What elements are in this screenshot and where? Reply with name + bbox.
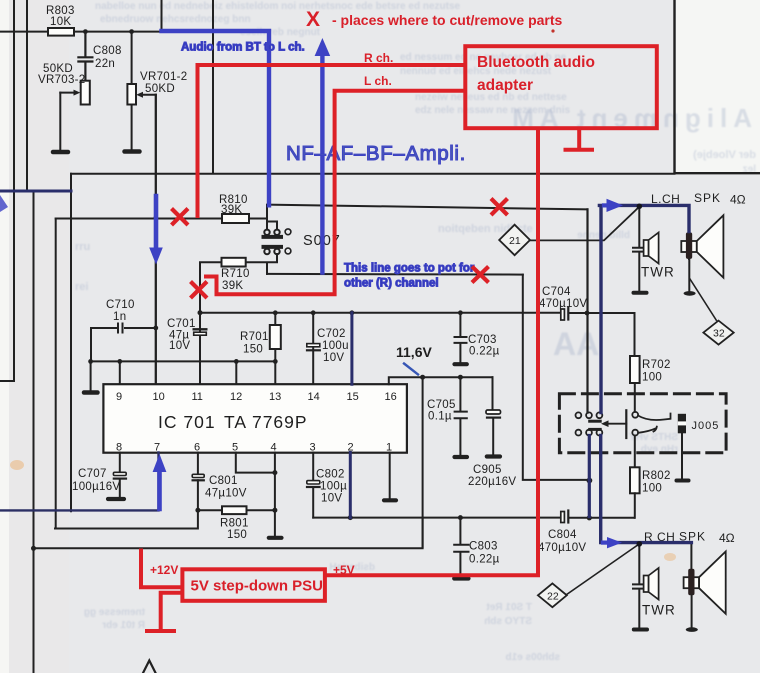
svg-text:bllid nenne: bllid nenne [577, 230, 630, 241]
svg-text:21: 21 [509, 235, 521, 247]
svg-text:sbh00s e1b: sbh00s e1b [506, 652, 560, 663]
svg-text:VR701-2: VR701-2 [140, 71, 188, 83]
potentiometer VR703-2 [38, 63, 90, 105]
diamond node 21 [499, 225, 530, 256]
wire red BT power down [326, 129, 539, 576]
svg-text:50KD: 50KD [145, 83, 175, 95]
svg-text:R710: R710 [221, 268, 250, 280]
capacitor C703 [455, 313, 500, 362]
capacitor C801 [55, 453, 247, 529]
wire signal rail above IC [200, 310, 635, 315]
wire ground bus lower [31, 518, 423, 551]
svg-text:220µ16V: 220µ16V [468, 476, 516, 488]
svg-text:100: 100 [642, 483, 662, 495]
label blue 11.6V [396, 344, 432, 375]
wire navy L channel to speaker [599, 205, 689, 412]
svg-text:39K: 39K [221, 204, 242, 216]
ground pin 4 [269, 536, 282, 540]
wire blue arrow down to pin 10 [149, 196, 163, 265]
wire navy pin 2 path [349, 453, 352, 518]
svg-text:R801: R801 [220, 518, 249, 530]
wire section border top [71, 173, 675, 175]
svg-text:C701: C701 [167, 318, 196, 330]
svg-text:9: 9 [116, 391, 122, 403]
svg-text:C804: C804 [548, 529, 577, 541]
ground red PSU [147, 593, 182, 631]
capacitor C803 [454, 518, 499, 576]
speaker R tweeter [633, 544, 676, 627]
svg-text:AA: AA [553, 326, 599, 362]
ground C705 [455, 455, 468, 459]
wire left vertical bus 1 [0, 0, 14, 381]
speaker L tweeter [633, 207, 675, 291]
svg-text:R802: R802 [642, 470, 671, 482]
ground red BT adapter [566, 129, 593, 150]
svg-text:0.1µ: 0.1µ [428, 411, 452, 423]
ground C707 [108, 497, 124, 501]
capacitor C802 [307, 453, 347, 518]
wire pin 1 stub [389, 453, 391, 498]
svg-text:10: 10 [153, 391, 165, 403]
svg-text:R701: R701 [240, 331, 269, 343]
svg-text:470µ10V: 470µ10V [538, 542, 586, 554]
svg-text:11,6V: 11,6V [396, 344, 432, 360]
svg-text:C705: C705 [427, 399, 456, 411]
svg-text:ebnedruow nehcsrednozeg bnn: ebnedruow nehcsrednozeg bnn [100, 14, 251, 25]
wire blue arrow R speaker line [603, 537, 622, 548]
svg-text:tnemesse gg: tnemesse gg [84, 607, 145, 618]
ground C905 [487, 454, 500, 458]
capacitor C707 [72, 453, 126, 497]
resistor R701 [240, 313, 281, 362]
resistor R803 [46, 5, 75, 36]
svg-text:Bluetooth audio: Bluetooth audio [477, 54, 595, 71]
svg-text:32: 32 [713, 328, 725, 340]
svg-text:4Ω: 4Ω [719, 531, 735, 545]
wire VR703 wiper to ground [59, 93, 61, 151]
wire pin 9 stub [119, 361, 121, 384]
ground VR701 [125, 149, 140, 154]
node R speaker junction [637, 541, 643, 547]
wire blue arrow up from lower switch wire [315, 38, 331, 273]
svg-text:C802: C802 [316, 469, 345, 481]
connector J005 contacts [576, 410, 720, 438]
svg-text:15: 15 [347, 391, 359, 403]
svg-text:VR703-2: VR703-2 [38, 74, 86, 86]
diamond node 32 [703, 321, 733, 345]
svg-text:- places where to cut/remove p: - places where to cut/remove parts [332, 12, 563, 28]
svg-text:47µ10V: 47µ10V [205, 488, 247, 500]
svg-text:0.22µ: 0.22µ [469, 346, 500, 358]
ground VR703 [53, 150, 68, 155]
potentiometer VR701-2 [127, 32, 187, 150]
svg-text:X: X [306, 8, 320, 31]
svg-text:C703: C703 [468, 334, 497, 346]
svg-text:C710: C710 [106, 299, 135, 311]
resistor R810 [219, 194, 267, 223]
svg-text:150: 150 [243, 344, 263, 356]
wire S007 upper output [267, 205, 588, 210]
ground C803 [454, 576, 468, 580]
svg-text:J005: J005 [692, 420, 720, 432]
svg-text:L ch.: L ch. [364, 74, 392, 88]
svg-text:C801: C801 [209, 475, 238, 487]
svg-text:der Vloebje): der Vloebje) [693, 149, 756, 161]
ground J005 sleeve [677, 479, 689, 483]
connector J005 dashed box [559, 394, 726, 453]
svg-text:rei: rei [75, 281, 88, 293]
wire pin 12 stub [235, 361, 237, 384]
ground R tweeter [634, 628, 647, 632]
svg-text:4Ω: 4Ω [730, 193, 746, 207]
svg-text:22: 22 [547, 590, 559, 602]
wire S007 lower output to pot line [267, 273, 523, 276]
svg-text:12: 12 [230, 391, 242, 403]
wire pin 13 stub [274, 361, 276, 384]
cut mark X1 [173, 210, 187, 224]
wire red 12V feed [141, 551, 182, 588]
wire 5V rail [313, 515, 634, 520]
wire bottom page arrow mark [143, 661, 156, 673]
node L speaker junction [637, 204, 643, 210]
svg-text:R702: R702 [642, 359, 671, 371]
cut mark X3 [493, 200, 507, 214]
wire input row to R803 [0, 31, 48, 33]
svg-text:+5V: +5V [333, 563, 355, 577]
svg-text:TA 7769P: TA 7769P [224, 412, 308, 432]
box Bluetooth audio adapter [465, 46, 657, 128]
svg-text:39K: 39K [222, 280, 243, 292]
svg-text:1n: 1n [113, 311, 126, 323]
svg-text:C803: C803 [469, 541, 498, 553]
svg-text:14: 14 [308, 391, 320, 403]
svg-text:+12V: +12V [150, 563, 178, 577]
IC U701 TA7769P [103, 384, 407, 453]
svg-text:0.22µ: 0.22µ [469, 554, 500, 566]
diamond node 22 [538, 583, 567, 607]
svg-text:TWR: TWR [641, 265, 675, 280]
wire pin 4 to ground [272, 453, 277, 536]
svg-text:Audio from BT to L ch.: Audio from BT to L ch. [181, 42, 305, 54]
wire pot line down [523, 275, 593, 484]
svg-text:C702: C702 [317, 328, 346, 340]
svg-text:13: 13 [269, 391, 281, 403]
label R channel speaker [644, 530, 735, 546]
wire pin 16 to supply node [389, 375, 493, 385]
wire left riser to R801 row [55, 219, 57, 529]
label red title [306, 8, 563, 33]
label L channel speaker [651, 191, 746, 207]
svg-text:R t01 ebr: R t01 ebr [102, 620, 145, 631]
capacitor C701 [167, 310, 206, 384]
svg-text:TWR: TWR [642, 603, 676, 618]
decor blue edge mark [0, 195, 8, 212]
svg-text:C808: C808 [93, 45, 122, 57]
label NF-AF-BF-Ampli [286, 142, 466, 165]
ground C703 [455, 362, 467, 366]
svg-text:C905: C905 [473, 464, 502, 476]
wire left vertical bus 3 [33, 191, 35, 673]
svg-text:other (R) channel: other (R) channel [344, 278, 439, 290]
wire R810 row [56, 218, 222, 220]
svg-text:10K: 10K [50, 16, 71, 28]
svg-text:C704: C704 [542, 286, 571, 298]
wire red R channel to BT [198, 51, 466, 216]
label blue audio from BT [181, 42, 305, 54]
svg-text:16: 16 [385, 391, 397, 403]
svg-text:This line goes to pot for: This line goes to pot for [344, 263, 475, 275]
wire L speaker return to diamond 32 [690, 279, 716, 320]
svg-text:IC 701: IC 701 [158, 412, 216, 432]
svg-text:5V step-down PSU: 5V step-down PSU [191, 578, 324, 595]
cut mark X2 [192, 283, 206, 297]
svg-text:150: 150 [227, 529, 247, 541]
ground C710 [84, 361, 98, 392]
label red 5V [333, 563, 355, 577]
svg-text:rru: rru [75, 241, 90, 253]
wire supply riser [422, 377, 424, 547]
capacitor C702 [307, 313, 349, 384]
wire navy feed left edge [0, 190, 71, 193]
wire navy jack to C804 node [588, 436, 591, 517]
switch S007 [246, 205, 341, 274]
svg-text:adapter: adapter [477, 77, 533, 94]
label blue this line goes to pot [344, 263, 475, 290]
svg-text:10V: 10V [321, 493, 342, 505]
svg-text:470µ10V: 470µ10V [539, 298, 587, 310]
capacitor C705 [427, 377, 467, 455]
svg-text:11: 11 [192, 391, 203, 403]
wire left vertical bus 2 [26, 0, 28, 191]
page frame corner [675, 0, 760, 173]
ground L tweeter [634, 291, 647, 295]
resistor R802 [630, 436, 671, 518]
wire vertical upper mid [212, 0, 214, 174]
box 5V step-down PSU [182, 569, 325, 601]
svg-text:100u: 100u [322, 340, 349, 352]
cut mark X4 [474, 268, 488, 281]
wire blue arrow up into pin 7 [153, 454, 167, 509]
wire VR701 wiper down to IC pin 10 [153, 95, 158, 384]
svg-text:SHTS vHY: SHTS vHY [629, 432, 678, 443]
wire diamond 22 to R speaker node [567, 544, 640, 595]
wire bus row above IC [88, 359, 277, 364]
svg-text:C707: C707 [78, 468, 107, 480]
capacitor C710 [91, 299, 156, 361]
svg-text:100µ: 100µ [320, 481, 347, 493]
speaker R woofer [684, 544, 726, 632]
svg-text:nabelloe nun ed nednebeiz ehis: nabelloe nun ed nednebeiz ehisteldom noi… [95, 1, 461, 12]
resistor R702 [630, 313, 671, 412]
capacitor C704 [539, 286, 587, 320]
wire navy jack upper feed [586, 209, 588, 412]
wire blue overlay BT audio to L channel [162, 31, 270, 205]
svg-text:SPK: SPK [694, 191, 721, 205]
wire pin 7 output [0, 453, 159, 511]
capacitor C905 [468, 377, 516, 488]
svg-text:NF–AF–BF–Ampli.: NF–AF–BF–Ampli. [286, 142, 466, 165]
speaker L woofer [681, 215, 723, 295]
wire J005 sleeve to ground [681, 433, 683, 478]
wire red L channel to BT [206, 74, 465, 294]
svg-text:100µ16V: 100µ16V [72, 481, 120, 493]
svg-text:T S01 Ret: T S01 Ret [486, 602, 532, 613]
wire section border left [70, 174, 72, 511]
resistor R801 [198, 506, 275, 541]
svg-text:STYO sbh: STYO sbh [484, 616, 532, 627]
wire navy pin 15 path [350, 313, 353, 384]
svg-text:22n: 22n [95, 58, 115, 70]
resistor R710 [200, 258, 250, 312]
svg-text:10V: 10V [323, 352, 344, 364]
wire pin 5 stub [236, 453, 275, 473]
svg-text:100: 100 [642, 372, 662, 384]
capacitor C808 [78, 32, 121, 81]
wire navy R channel to speaker [601, 436, 692, 543]
wire diamond 21 to L speaker node [530, 207, 639, 241]
wire blue arrow L speaker line [604, 199, 623, 212]
svg-text:10V: 10V [169, 340, 190, 352]
capacitor C804 [538, 511, 586, 555]
ground pin 1 [384, 498, 396, 502]
wire R803 to corner [74, 0, 162, 34]
svg-text:R ch.: R ch. [364, 51, 393, 65]
